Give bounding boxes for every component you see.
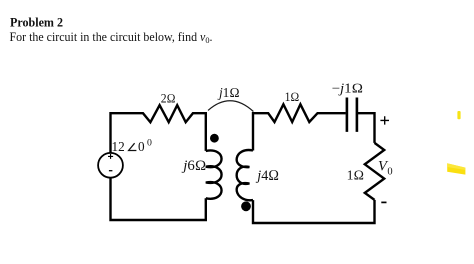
inductor L1 primary coil j6ohm — [206, 150, 222, 198]
wire: capacitor right lead + right vertical down to resistor — [358, 113, 375, 143]
svg-text:−j1Ω: −j1Ω — [332, 80, 364, 95]
svg-text:j4Ω: j4Ω — [255, 168, 279, 184]
svg-text:1Ω: 1Ω — [347, 167, 365, 182]
svg-text:12: 12 — [112, 139, 125, 154]
minus sign output — [381, 201, 386, 203]
wire: secondary top lead + resistor 1ohm top + lead to capacitor — [253, 104, 346, 150]
mutual coupling arc j1ohm — [208, 101, 253, 112]
svg-text:j6Ω: j6Ω — [181, 158, 206, 174]
source minus sign — [109, 170, 113, 172]
source value label 12 angle 0 — [112, 138, 153, 154]
inductor L2 secondary coil j4ohm — [237, 150, 253, 200]
svg-text:For the circuit in the circuit: For the circuit in the circuit below, fi… — [10, 30, 213, 45]
wire: left mesh bottom + source lower lead — [111, 177, 206, 220]
resistor 1ohm vertical — [365, 143, 384, 200]
highlighter mark small — [457, 111, 460, 119]
svg-text:0: 0 — [138, 139, 145, 154]
capacitor C -j1ohm plates — [347, 98, 357, 132]
dot mark primary — [210, 134, 219, 143]
voltage source V1 circle — [98, 153, 123, 178]
highlighter mark swoosh — [447, 163, 465, 174]
svg-text:j1Ω: j1Ω — [217, 85, 240, 100]
svg-text:0: 0 — [387, 167, 392, 178]
source plus sign — [108, 154, 113, 159]
svg-text:Problem 2: Problem 2 — [10, 16, 63, 30]
wire: right mesh bottom — [253, 200, 375, 223]
wire: left mesh top + resistor R 2ohm + corner down to primary coil — [111, 105, 206, 153]
svg-text:2Ω: 2Ω — [161, 92, 176, 106]
svg-text:1Ω: 1Ω — [285, 90, 300, 104]
plus sign output — [380, 116, 389, 124]
svg-text:0: 0 — [147, 138, 152, 149]
dot mark secondary — [241, 201, 251, 211]
